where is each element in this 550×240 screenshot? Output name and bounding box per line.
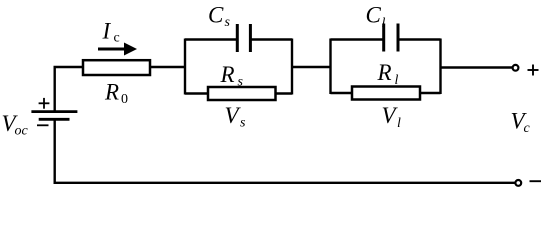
capacitor Cs bbox=[185, 24, 292, 52]
svg-text:c: c bbox=[524, 121, 531, 136]
svg-text:l: l bbox=[395, 73, 399, 88]
svg-text:s: s bbox=[225, 15, 231, 30]
resistor R0 bbox=[83, 60, 150, 75]
wire bbox=[54, 182, 516, 184]
current arrow bbox=[98, 43, 137, 56]
svg-text:c: c bbox=[114, 31, 120, 46]
svg-text:l: l bbox=[382, 16, 386, 31]
wire bbox=[54, 119, 56, 184]
svg-text:V: V bbox=[225, 103, 242, 128]
svg-text:s: s bbox=[240, 116, 246, 131]
wire bbox=[441, 66, 513, 68]
node D : RC2 right edge bbox=[439, 39, 441, 95]
svg-text:R: R bbox=[220, 62, 235, 87]
svg-text:oc: oc bbox=[15, 124, 29, 139]
terminal - bbox=[515, 180, 521, 186]
capacitor Cl bbox=[331, 24, 441, 52]
terminal + bbox=[513, 65, 519, 71]
battery V_oc bbox=[31, 98, 77, 125]
svg-text:0: 0 bbox=[121, 92, 128, 107]
wire bbox=[55, 67, 83, 112]
resistor Rs bbox=[185, 87, 292, 100]
svg-text:s: s bbox=[238, 75, 244, 90]
svg-text:I: I bbox=[102, 19, 112, 44]
svg-text:C: C bbox=[366, 3, 382, 28]
svg-text:C: C bbox=[208, 3, 224, 28]
svg-text:V: V bbox=[382, 103, 399, 128]
svg-text:R: R bbox=[377, 60, 392, 85]
svg-text:R: R bbox=[104, 80, 119, 105]
wire bbox=[292, 66, 331, 68]
label - (output) bbox=[530, 180, 542, 182]
node B : RC1 right edge bbox=[291, 39, 293, 95]
label + (output) bbox=[528, 65, 539, 76]
wire bbox=[150, 66, 186, 68]
node A : RC1 left edge bbox=[184, 39, 186, 95]
svg-text:l: l bbox=[397, 116, 401, 131]
node C : RC2 left edge bbox=[329, 39, 331, 95]
resistor Rl bbox=[331, 87, 441, 100]
